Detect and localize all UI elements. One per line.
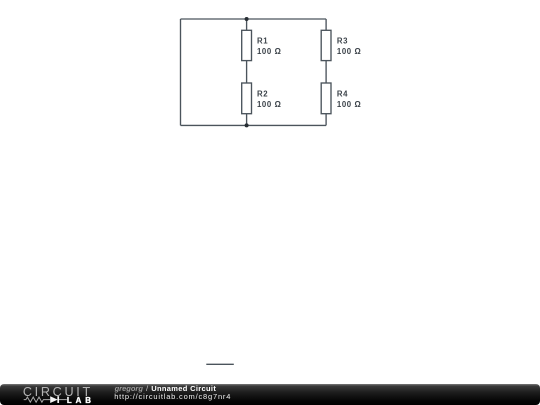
wire between R1 and R2 [246,61,248,83]
resistor R3 body [321,30,331,60]
wire top lead to R1 [246,19,248,30]
resistor R2 body [242,83,252,114]
wire from R2 to bottom node [246,114,248,126]
wire between R3 and R4 [325,61,327,83]
svg-text:LAB: LAB [67,396,95,405]
node B junction dot bottom [245,123,249,127]
wire from R4 to bottom [325,114,327,126]
wire left side [180,19,182,125]
resistor R1 body [242,30,252,60]
logo resistor zigzag and diode symbol [24,397,67,402]
logo diode triangle [50,396,58,403]
wire right side top lead to R3 [325,19,327,30]
footer author and circuit title [115,385,217,393]
footer bar [0,384,540,405]
resistor R4 body [321,83,331,114]
logo diode cathode bar [57,396,59,403]
wire bottom from bottom-left corner to node B [181,124,327,126]
footer url [114,393,231,401]
wire stray segment [206,363,234,365]
node A junction dot top [245,17,249,21]
wire top from node A to top-right corner [181,18,327,20]
